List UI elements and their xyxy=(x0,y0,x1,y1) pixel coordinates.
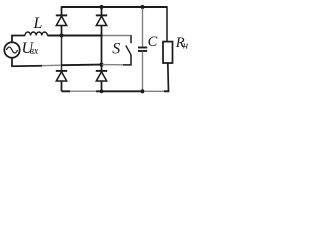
resistor Rn (load) xyxy=(163,42,173,63)
wire bottom rail light segment to resistor xyxy=(144,90,164,92)
svg-text:C: C xyxy=(148,34,158,50)
node A junction dot xyxy=(60,34,64,38)
wire node B down to D4 cathode xyxy=(101,65,103,71)
wire D4 anode to bottom rail xyxy=(101,81,103,91)
wire top rail (+) xyxy=(62,6,168,8)
wire node A rail from inductor to bridge left leg xyxy=(47,35,102,37)
wire capacitor top lead (light) xyxy=(142,9,144,48)
wire node B rail light segment xyxy=(42,64,61,67)
node bottom-rail D4 junction dot xyxy=(100,89,104,93)
wire bottom rail light segment between D3 and D4 xyxy=(70,90,96,92)
wire bottom rail (-) xyxy=(62,90,71,92)
node bottom-rail C junction dot xyxy=(140,89,144,93)
node top-rail C junction dot xyxy=(140,5,144,9)
svg-text:L: L xyxy=(33,15,43,32)
inductor L xyxy=(25,32,47,36)
node top-rail D2 junction dot xyxy=(99,5,103,9)
node B junction dot xyxy=(99,63,103,67)
svg-text:вх: вх xyxy=(30,46,39,57)
wire node B rail black segment crossing D1-D3 column xyxy=(61,64,102,67)
wire node B rail to switch bottom (light segment) xyxy=(102,64,123,66)
wire D2 top lead xyxy=(101,7,103,15)
wire resistor bottom lead xyxy=(167,63,170,91)
diode D4 (bottom-right) xyxy=(96,71,107,81)
wire D2 anode down through A-rail crossing to node B dot xyxy=(101,25,103,64)
AC source U_vx xyxy=(4,42,19,57)
wire bottom rail D4 to C xyxy=(96,90,144,92)
svg-text:S: S xyxy=(112,41,120,58)
wire capacitor bottom lead (light) xyxy=(142,51,144,90)
wire node A down through B-rail crossing to D3 cathode xyxy=(61,36,63,71)
svg-text:н: н xyxy=(183,41,188,52)
switch S xyxy=(123,36,131,65)
diode D1 (top-left) xyxy=(56,15,67,25)
wire D1 top lead xyxy=(61,6,63,15)
wire bottom rail corner at resistor xyxy=(164,90,169,92)
wire source bottom lead and node B rail xyxy=(12,58,42,66)
wire node A rail to switch (light segment) xyxy=(103,35,132,37)
capacitor C xyxy=(138,48,147,52)
diode D3 (bottom-left) xyxy=(56,71,67,81)
wire source top lead to node A rail xyxy=(12,36,25,43)
wire resistor top lead xyxy=(166,6,168,41)
wire D1 anode to node A xyxy=(61,25,63,35)
wire D3 anode to bottom rail xyxy=(61,81,63,91)
diode D2 (top-right) xyxy=(96,15,107,25)
